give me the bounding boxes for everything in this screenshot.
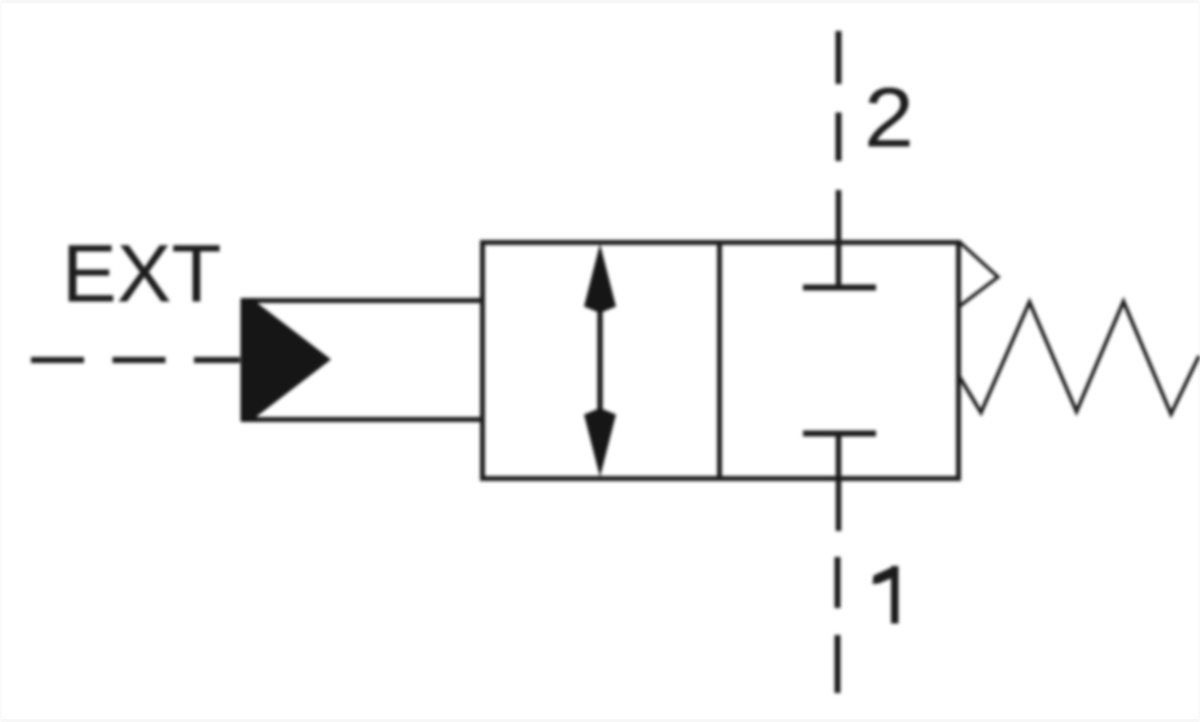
svg-text:2: 2 bbox=[864, 71, 914, 165]
svg-text:EXT: EXT bbox=[62, 229, 221, 320]
